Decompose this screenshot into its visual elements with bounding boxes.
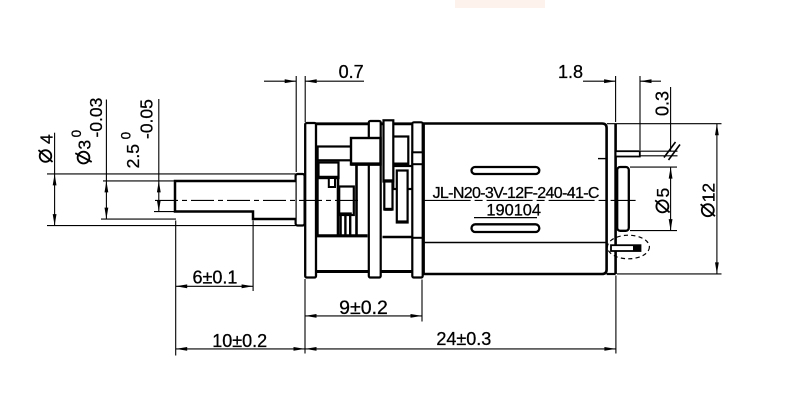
watermark remnant xyxy=(455,0,545,8)
terminal top xyxy=(616,151,640,156)
gearbox case top edge xyxy=(316,122,413,125)
dim 10 plus-minus 0.2 xyxy=(176,331,305,351)
dim 9 plus-minus 0.2 xyxy=(305,279,422,354)
dim 0.7 xyxy=(264,62,364,172)
gear 3 xyxy=(319,163,339,179)
pinion channel xyxy=(337,178,340,237)
svg-text:12: 12 xyxy=(699,183,719,202)
dim 6 plus-minus 0.1 xyxy=(176,221,253,356)
motor slot bottom xyxy=(472,224,540,232)
gearbox middle plate xyxy=(369,121,381,278)
gear 5 axle xyxy=(397,171,408,223)
motor end rim xyxy=(614,124,617,274)
dim diameter 3 xyxy=(69,98,176,219)
svg-text:3: 3 xyxy=(74,140,94,150)
motor slot top xyxy=(472,167,540,174)
svg-text:2.5: 2.5 xyxy=(123,144,143,168)
motor seam line xyxy=(425,242,606,244)
gear stage band xyxy=(318,147,352,161)
gearbox inner wall xyxy=(317,147,319,237)
output shaft with flat xyxy=(175,181,296,219)
terminal callout ellipse xyxy=(607,235,649,259)
svg-text:1.8: 1.8 xyxy=(558,62,583,82)
rear plate bearing hole xyxy=(412,152,422,164)
svg-text:-0.03: -0.03 xyxy=(86,98,106,138)
svg-text:9±0.2: 9±0.2 xyxy=(339,297,388,319)
gear 5 xyxy=(393,166,412,189)
svg-text:0: 0 xyxy=(118,132,133,140)
motor body xyxy=(424,124,607,275)
dim diameter 5 xyxy=(630,167,677,231)
svg-text:0: 0 xyxy=(69,130,84,138)
gear 4 xyxy=(393,137,409,165)
dim 0.3 xyxy=(640,87,680,160)
svg-text:JL-N20-3V-12F-240-41-C: JL-N20-3V-12F-240-41-C xyxy=(433,185,599,202)
shaft boss bearing xyxy=(296,174,305,226)
svg-text:190104: 190104 xyxy=(486,201,541,219)
gearbox case bottom edge xyxy=(316,270,413,273)
gear area bottom band xyxy=(317,234,368,237)
centerline right segment xyxy=(425,199,636,201)
gearbox front plate xyxy=(305,123,316,278)
end cap xyxy=(617,167,629,231)
svg-text:0.7: 0.7 xyxy=(339,62,364,82)
gear 3 axle stub xyxy=(329,178,335,187)
gear 2 xyxy=(351,138,381,165)
dim 24 plus-minus 0.3 xyxy=(305,276,616,354)
dim 2.5 xyxy=(118,99,176,212)
svg-text:6±0.1: 6±0.1 xyxy=(192,268,237,288)
pinion inner sleeve xyxy=(339,187,354,216)
svg-text:4: 4 xyxy=(37,134,57,144)
gearbox rear plate xyxy=(412,122,422,277)
svg-text:5: 5 xyxy=(653,188,673,198)
svg-text:24±0.3: 24±0.3 xyxy=(436,329,491,349)
centerline left segment xyxy=(155,199,361,201)
pinion teeth xyxy=(339,212,352,215)
svg-text:0.3: 0.3 xyxy=(652,91,672,116)
dim 1.8 xyxy=(558,62,661,150)
dim diameter 12 xyxy=(607,124,722,274)
svg-text:-0.05: -0.05 xyxy=(136,99,156,139)
svg-text:10±0.2: 10±0.2 xyxy=(212,331,267,351)
date underline xyxy=(474,217,537,219)
dim diameter 4 xyxy=(37,133,296,226)
idler shaft bar xyxy=(384,120,394,181)
terminal bottom xyxy=(611,245,641,251)
